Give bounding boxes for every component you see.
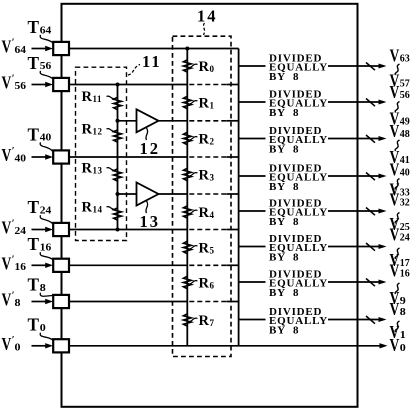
resistor R6	[183, 276, 191, 289]
wire t1 stub to bus	[227, 84, 239, 86]
wire t5: V24 tap from T24 to ladder	[69, 229, 187, 231]
wire t6 dashed segment inside box 14	[189, 264, 226, 266]
svg-text:R: R	[82, 89, 93, 105]
resistor R7	[183, 314, 191, 326]
bus slash block 3	[366, 173, 375, 181]
resistor R14	[114, 208, 122, 220]
terminal T56 (square)	[53, 78, 69, 91]
svg-text:24: 24	[15, 225, 27, 237]
svg-text:V: V	[390, 190, 400, 210]
divided-equally-by-8 block 3 stub wire	[239, 175, 266, 177]
svg-text:56: 56	[40, 60, 52, 72]
leader T8	[40, 293, 52, 297]
svg-text:T: T	[28, 17, 40, 37]
wire t2 dashed segment inside box 14	[189, 120, 226, 122]
svg-text:57: 57	[400, 78, 410, 90]
resistor R4	[183, 206, 191, 218]
svg-text:V: V	[2, 73, 12, 93]
leader T16	[40, 252, 52, 259]
output arrow block 2	[328, 138, 379, 140]
junction dot small ladder bottom	[116, 228, 120, 232]
svg-text:BY 8: BY 8	[269, 325, 299, 337]
resistor R0	[183, 60, 191, 72]
input arrow V'24	[32, 229, 47, 231]
leader R14	[107, 207, 116, 210]
svg-text:40: 40	[40, 132, 52, 144]
svg-text:R: R	[82, 161, 93, 177]
bus slash block 6	[366, 279, 375, 287]
terminal T8 (square)	[53, 295, 69, 308]
svg-text:V: V	[2, 290, 12, 310]
divided-equally-by-8 block 2 stub wire	[239, 138, 266, 140]
terminal T16 (square)	[53, 259, 69, 272]
leader R4	[190, 210, 198, 213]
svg-text:R: R	[199, 241, 210, 257]
svg-text:T: T	[28, 234, 40, 254]
terminal T40 (square)	[53, 150, 69, 163]
junction dot buffer 12 input	[116, 119, 120, 123]
svg-text:1: 1	[400, 329, 406, 341]
output arrow block 3	[328, 175, 379, 177]
divided-equally-by-8 block 0 stub wire	[239, 65, 266, 67]
leader T64	[40, 35, 52, 43]
divided-equally-by-8 block 6 stub wire	[239, 281, 266, 283]
op-amp buffer 12	[137, 109, 159, 132]
squiggle break 1	[395, 102, 399, 113]
svg-text:12: 12	[140, 139, 161, 158]
svg-text:T: T	[28, 124, 40, 144]
svg-text:V: V	[390, 225, 400, 245]
wire t5 stub to bus	[227, 229, 239, 231]
divided-equally-by-8 block 7 stub wire	[239, 319, 266, 321]
squiggle break 4	[395, 213, 399, 224]
squiggle break 5	[395, 248, 399, 259]
svg-text:64: 64	[40, 24, 52, 36]
leader T56	[40, 71, 52, 79]
svg-text:11: 11	[142, 52, 162, 71]
svg-text:40: 40	[15, 153, 27, 165]
leader for label 11	[128, 65, 140, 76]
svg-text:BY 8: BY 8	[269, 181, 299, 193]
bus slash block 0	[366, 63, 375, 71]
leader R0	[190, 64, 198, 67]
svg-text:14: 14	[93, 205, 103, 215]
squiggle break 2	[395, 140, 399, 151]
svg-text:41: 41	[400, 154, 410, 166]
resistor ladder vertical wire (big ladder)	[186, 49, 188, 346]
resistor R13	[114, 169, 122, 181]
input arrow V'64	[32, 48, 47, 50]
wire t7 dashed segment inside box 14	[189, 301, 226, 303]
divided-equally-by-8 block 6 text	[269, 268, 328, 299]
svg-text:V: V	[2, 37, 12, 57]
wire t4 dashed segment inside box 14	[189, 193, 226, 195]
svg-text:V: V	[390, 299, 400, 319]
dashed box 14	[173, 36, 232, 356]
divided-equally-by-8 block 3 text	[269, 162, 328, 193]
leader R11	[107, 96, 116, 99]
leader R1	[190, 101, 198, 104]
svg-text:24: 24	[40, 205, 52, 217]
svg-text:2: 2	[210, 137, 215, 147]
svg-text:BY 8: BY 8	[269, 144, 299, 156]
resistor R1	[183, 96, 191, 109]
svg-text:BY 8: BY 8	[269, 216, 299, 228]
svg-text:16: 16	[15, 261, 27, 273]
input arrow V'40	[32, 156, 47, 158]
divided-equally-by-8 block 1 stub wire	[239, 101, 266, 103]
bus slash block 5	[366, 243, 375, 251]
divided-equally-by-8 block 7 text	[269, 306, 328, 337]
bus slash block 4	[366, 208, 375, 216]
arrowhead V0	[380, 343, 388, 348]
svg-text:16: 16	[40, 242, 52, 254]
divided-equally-by-8 block 4 stub wire	[239, 210, 266, 212]
svg-text:40: 40	[400, 167, 410, 179]
wire t6 stub to bus	[227, 264, 239, 266]
wire t2: buffer 12 output to ladder	[158, 120, 187, 122]
wire t4 stub to bus	[227, 193, 239, 195]
svg-text:8: 8	[15, 297, 22, 309]
svg-text:R: R	[199, 313, 210, 329]
terminal T64 (square)	[53, 42, 69, 55]
wire t6: V16 tap from T16 to ladder	[69, 264, 187, 266]
svg-text:V: V	[2, 218, 12, 238]
junction dot small ladder top	[116, 83, 120, 87]
leader T40	[40, 142, 52, 151]
leader R13	[107, 168, 116, 171]
wire t3: V40 tap from T40 to ladder	[69, 156, 187, 158]
leader R3	[190, 173, 198, 176]
terminal T24 (square)	[53, 223, 69, 236]
svg-text:V: V	[390, 322, 400, 342]
divided-equally-by-8 block 5 text	[269, 233, 328, 264]
leader 12	[146, 128, 148, 140]
output arrow block 0	[328, 65, 379, 67]
bus slash block 7	[366, 316, 375, 324]
svg-text:8: 8	[400, 306, 407, 318]
svg-text:BY 8: BY 8	[269, 287, 299, 299]
resistor R11	[114, 97, 122, 110]
svg-text:R: R	[199, 276, 210, 292]
resistor R5	[183, 241, 191, 254]
svg-text:14: 14	[197, 7, 218, 26]
svg-text:T: T	[28, 197, 40, 217]
squiggle break 3	[395, 179, 399, 190]
svg-text:V: V	[390, 82, 400, 102]
junction dot buffer 13 input	[116, 192, 120, 196]
wire t1 dashed segment inside box 14	[189, 84, 226, 86]
squiggle break 6	[395, 283, 399, 294]
wire t2 stub to bus	[227, 120, 239, 122]
svg-text:13: 13	[140, 212, 161, 231]
svg-text:BY 8: BY 8	[269, 107, 299, 119]
wire t5 dashed segment inside box 14	[189, 229, 226, 231]
small ladder vertical wire (R11-R14)	[117, 85, 119, 230]
svg-text:R: R	[199, 96, 210, 112]
svg-text:T: T	[28, 315, 40, 335]
wire t3 dashed segment inside box 14	[189, 156, 226, 158]
svg-text:5: 5	[210, 246, 215, 256]
svg-text:16: 16	[400, 268, 410, 280]
leader R12	[107, 129, 116, 132]
svg-text:BY 8: BY 8	[269, 71, 299, 83]
input arrow V'56	[32, 84, 47, 86]
leader R6	[190, 281, 198, 284]
squiggle break 0	[395, 64, 399, 75]
svg-text:R: R	[82, 200, 93, 216]
svg-text:64: 64	[15, 44, 27, 56]
divided-equally-by-8 block 4 text	[269, 197, 328, 228]
wire t7 stub to bus	[227, 301, 239, 303]
svg-text:49: 49	[400, 116, 410, 128]
svg-text:V: V	[2, 253, 12, 273]
svg-text:63: 63	[400, 53, 410, 65]
svg-text:11: 11	[93, 94, 103, 104]
op-amp buffer 12 input wire	[118, 120, 137, 122]
svg-text:4: 4	[210, 210, 215, 220]
divided-equally-by-8 block 0 text	[269, 52, 328, 83]
divided-equally-by-8 block 2 text	[269, 125, 328, 156]
svg-text:0: 0	[210, 64, 215, 74]
divided-equally-by-8 block 1 text	[269, 88, 328, 119]
wire t3 stub to bus	[227, 156, 239, 158]
svg-text:24: 24	[400, 232, 410, 244]
svg-text:V: V	[390, 261, 400, 281]
svg-text:T: T	[28, 275, 40, 295]
svg-text:32: 32	[400, 197, 410, 209]
input arrow V'8	[32, 301, 47, 303]
svg-text:BY 8: BY 8	[269, 252, 299, 264]
wire t7: V8 tap from T8 to ladder	[69, 301, 187, 303]
svg-text:R: R	[199, 168, 210, 184]
resistor R2	[183, 132, 191, 145]
dashed box 11	[76, 67, 127, 240]
svg-text:T: T	[28, 53, 40, 73]
bus slash block 1	[366, 99, 375, 107]
leader for label 14	[204, 23, 205, 35]
resistor R3	[183, 168, 191, 181]
svg-text:8: 8	[40, 282, 47, 294]
wire t4: buffer 13 output to ladder	[158, 193, 187, 195]
leader T0	[40, 333, 52, 340]
squiggle break 7	[395, 321, 399, 332]
svg-text:0: 0	[40, 322, 47, 334]
wire t8: V0 line from T0 across to right edge	[69, 345, 381, 347]
svg-text:V: V	[390, 46, 400, 66]
output arrow block 1	[328, 101, 379, 103]
leader T24	[40, 215, 52, 223]
input arrow V'16	[32, 264, 47, 266]
svg-text:56: 56	[400, 89, 410, 101]
output arrow block 6	[328, 281, 379, 283]
bus slash block 2	[366, 135, 375, 143]
svg-text:13: 13	[93, 166, 103, 176]
svg-text:R: R	[82, 122, 93, 138]
svg-text:V: V	[2, 145, 12, 165]
svg-text:56: 56	[15, 80, 27, 92]
leader R2	[190, 137, 198, 140]
terminal T0 (square)	[53, 339, 69, 352]
svg-text:V: V	[390, 160, 400, 180]
svg-text:7: 7	[210, 318, 215, 328]
output arrow block 7	[328, 319, 379, 321]
svg-text:R: R	[199, 59, 210, 75]
svg-text:48: 48	[400, 128, 410, 140]
svg-text:0: 0	[400, 342, 407, 354]
svg-text:6: 6	[210, 281, 215, 291]
resistor R12	[114, 130, 122, 142]
output arrow block 5	[328, 246, 379, 248]
svg-text:1: 1	[210, 101, 215, 111]
junction dot ladder top	[185, 47, 189, 51]
divided-equally-by-8 block 5 stub wire	[239, 246, 266, 248]
svg-text:R: R	[199, 132, 210, 148]
svg-text:12: 12	[93, 127, 103, 137]
op-amp buffer 13	[137, 183, 159, 206]
input arrow V'0	[32, 345, 47, 347]
bus vertical wire right of box 14	[238, 49, 240, 346]
leader 13	[146, 201, 148, 213]
svg-text:V: V	[390, 121, 400, 141]
wire t1: V56 tap from T56 to ladder	[69, 84, 187, 86]
wire t0: V64 tap from T64 to bus	[69, 48, 239, 50]
svg-text:0: 0	[15, 341, 22, 353]
output arrow block 4	[328, 210, 379, 212]
op-amp buffer 13 input wire	[118, 193, 137, 195]
outer box	[62, 4, 358, 407]
leader R7	[190, 318, 198, 321]
svg-text:3: 3	[210, 173, 215, 183]
leader R5	[190, 246, 198, 249]
svg-text:R: R	[199, 205, 210, 221]
svg-text:V: V	[2, 334, 12, 354]
